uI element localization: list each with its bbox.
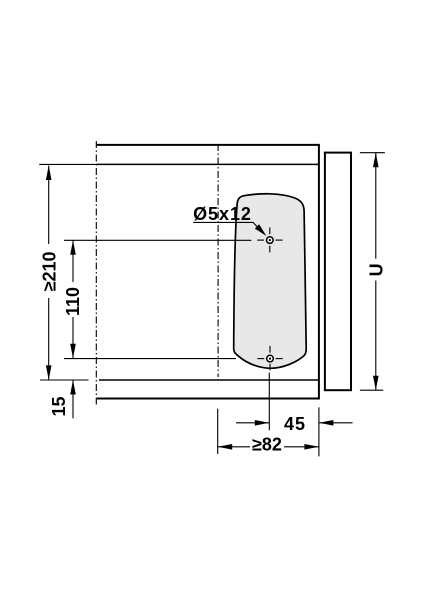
panel inner top line (96, 163, 319, 165)
extension line through bottom hole from left (64, 358, 236, 360)
leader arrowhead (255, 224, 267, 236)
right extension line (panel edge) (318, 407, 320, 456)
bar (right, cabinet front) (325, 153, 351, 391)
panel right edge (318, 144, 320, 400)
leader underline (193, 221, 253, 223)
svg-text:≥82: ≥82 (252, 434, 282, 454)
mounting plate (gray shape) (234, 194, 307, 369)
dimension 110 (72, 240, 74, 282)
panel inner bottom line (99, 379, 319, 381)
top hole (267, 237, 274, 244)
svg-text:≥210: ≥210 (39, 251, 59, 291)
panel bottom edge (97, 398, 319, 400)
panel top edge (97, 144, 320, 146)
dimension 15 (72, 380, 74, 418)
centerline left (dash-dot) (95, 141, 97, 405)
svg-text:U: U (366, 263, 386, 276)
svg-text:45: 45 (284, 414, 306, 434)
bottom hole centerline going down (268, 373, 270, 431)
bottom hole (267, 355, 274, 362)
centerline at x=218 (dash-dot) (217, 144, 219, 377)
top hole crosshair (257, 239, 264, 241)
dimension >=82 (218, 446, 250, 448)
extension line through top hole from left (64, 239, 251, 241)
svg-text:110: 110 (63, 287, 83, 316)
leader diagonal (253, 222, 259, 228)
bottom hole crosshair (257, 358, 264, 360)
svg-text:Ø5x12: Ø5x12 (193, 204, 252, 224)
left extension line below (dashed line extension) (217, 409, 219, 454)
extension line left of inner bottom line (40, 379, 89, 381)
dimension 45 (236, 422, 269, 424)
svg-text:15: 15 (49, 396, 69, 416)
dimension >=210 (48, 166, 50, 245)
extension line left of inner top line (39, 163, 96, 165)
dimension U (right) (360, 152, 385, 154)
